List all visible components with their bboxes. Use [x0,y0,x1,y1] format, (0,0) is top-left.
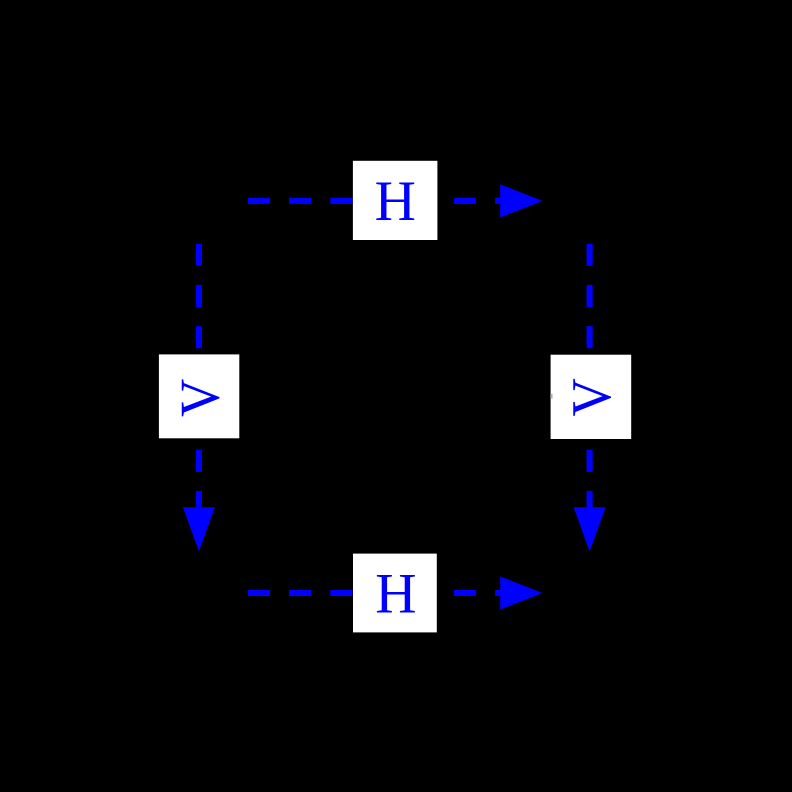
label box: H (bottom) [353,554,437,633]
svg-text:H: H [375,170,416,233]
label text: V (right), rotated 90deg CCW [560,378,623,416]
wire: top edge dashed shaft (H arrow, left node to right node) [248,198,500,204]
wire: right edge dashed shaft (V arrow) [587,244,593,508]
arrowhead: bottom edge, pointing right [500,576,542,609]
label box: H (top) [353,161,438,240]
wire: left edge dashed shaft (V arrow, top node to bottom node) [196,244,202,508]
artifact: small grey notch on left edge of right V box [550,394,552,399]
label box: V (left) [159,354,239,438]
svg-text:V: V [168,379,231,417]
label box: V (right) [551,355,632,439]
arrowhead: top edge, pointing right [500,184,542,217]
label text: H (top) [375,170,416,233]
svg-text:H: H [375,563,416,626]
svg-text:V: V [560,378,623,416]
arrowhead: left edge, pointing down [183,507,215,551]
label text: V (left), rotated 90deg CCW [168,379,231,417]
wire: bottom edge dashed shaft (H arrow) [248,590,500,596]
label text: H (bottom) [375,563,416,626]
arrowhead: right edge, pointing down [574,507,606,551]
